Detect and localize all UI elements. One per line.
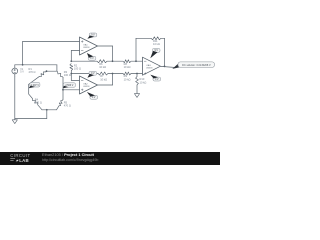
node bridge bottom	[46, 109, 48, 111]
svg-text:100 Ω: 100 Ω	[74, 67, 81, 71]
svg-text:LM358: LM358	[83, 47, 90, 49]
label OA1 LM358	[83, 44, 90, 50]
svg-text:470 Ω: 470 Ω	[29, 70, 36, 74]
resistor R10	[136, 77, 139, 86]
wire bridge right vertical	[62, 77, 64, 99]
node rail2 OA2 output junction	[112, 73, 114, 75]
wire OA2 non-inverting input from bridge	[63, 89, 80, 91]
resistor R6	[97, 60, 107, 63]
resistor R3 (bridge top-right diagonal)	[57, 71, 63, 77]
node junction at excitation tap	[22, 64, 24, 66]
label V1 5V	[20, 68, 24, 74]
svg-text:Ethan2105 / Project 1 Circuit: Ethan2105 / Project 1 Circuit	[42, 152, 95, 157]
node output feedback junction	[164, 66, 166, 68]
resistor R8	[123, 60, 131, 63]
svg-text:9 V: 9 V	[91, 73, 95, 75]
supply flag VEE at OA1	[87, 53, 96, 60]
wire OA1 output down to rail1	[112, 46, 114, 61]
wire feedback down to output	[164, 38, 166, 66]
supply flag VEE at OA3	[150, 75, 160, 81]
wire rail1 R6 to R8	[107, 60, 123, 62]
OA3 minus input mark	[144, 60, 146, 62]
label R6 10k	[99, 62, 106, 69]
wire rail2 node B to R7	[71, 73, 98, 75]
label R9 10k	[124, 74, 131, 81]
svg-text:2.503 V: 2.503 V	[65, 85, 73, 87]
node rail2 R10 junction	[136, 73, 138, 75]
svg-text:0 V: 0 V	[155, 79, 159, 81]
svg-text:LAB: LAB	[19, 158, 29, 163]
label R11 10k	[153, 39, 160, 46]
label R2 100 ohm	[74, 63, 81, 70]
resistor R9	[123, 72, 131, 75]
label R10 10k	[140, 77, 147, 84]
supply flag VCC at OA1	[87, 33, 96, 39]
svg-text:OA3: OA3	[146, 64, 151, 67]
wire feedback up from rail1	[135, 38, 137, 61]
svg-text:10 kΩ: 10 kΩ	[124, 77, 131, 81]
svg-text:9 V: 9 V	[91, 35, 95, 37]
svg-text:http://circuitlab.com/c/9nxvgd: http://circuitlab.com/c/9nxvgdqg49b	[42, 158, 98, 162]
resistor R4 (bridge bottom-left diagonal)	[29, 94, 42, 110]
label R7 10k	[100, 74, 107, 81]
svg-text:0 V: 0 V	[90, 58, 94, 60]
wire bottom rail to bridge bottom	[15, 118, 47, 120]
footer bar	[0, 152, 220, 165]
svg-text:OA1: OA1	[83, 44, 88, 47]
svg-text:10 kΩ: 10 kΩ	[100, 77, 107, 81]
wire node A vertical	[70, 51, 72, 62]
svg-text:LM358: LM358	[83, 86, 90, 88]
svg-text:10 kΩ: 10 kΩ	[153, 42, 160, 46]
resistor R5 (bridge bottom-right diagonal)	[57, 99, 64, 109]
voltage annotation flag at output VOUT	[172, 62, 214, 69]
resistor R1 (bridge top-left diagonal)	[29, 71, 47, 84]
svg-text:DC solution: 0.0130208 V: DC solution: 0.0130208 V	[182, 64, 211, 67]
svg-text:OA2: OA2	[83, 83, 88, 86]
svg-text:0 V: 0 V	[92, 97, 96, 99]
op-amp OA1	[80, 37, 98, 55]
wire bridge bottom segment	[42, 109, 57, 111]
ground GND1	[12, 119, 17, 124]
wire source minus down left rail	[14, 77, 16, 119]
wire feedback top right segment	[161, 37, 165, 39]
wire to OA2 inverting input	[71, 79, 79, 81]
wire rail2 down to R10	[136, 74, 138, 77]
wire from source V1 plus terminal to bridge top (horizontal)	[15, 64, 57, 66]
label R5 470 ohm	[64, 100, 71, 107]
OA1 plus input mark	[81, 41, 83, 43]
svg-text:10 kΩ: 10 kΩ	[99, 65, 106, 69]
wire node B vertical	[70, 71, 72, 81]
wire OA3 output	[161, 66, 175, 67]
wire rail1 R8 to OA3 inverting input	[131, 60, 143, 62]
wire OA1 output	[98, 45, 113, 47]
wire to OA1 non-inverting input (horizontal)	[23, 41, 80, 43]
wire bridge left vertical	[28, 84, 30, 94]
supply flag VEE at OA2	[87, 92, 98, 99]
wire R10 to ground	[136, 85, 138, 94]
wire OA2 output	[98, 84, 113, 86]
svg-text:9 V: 9 V	[154, 50, 158, 52]
op-amp OA2	[80, 76, 98, 94]
node bridge top	[46, 70, 48, 72]
CircuitLab logo	[10, 153, 30, 163]
svg-text:10 kΩ: 10 kΩ	[140, 80, 147, 84]
OA2 minus input mark	[81, 79, 83, 81]
wire bridge bottom to ground rail	[46, 110, 48, 119]
OA3 plus input mark	[144, 73, 146, 75]
label R4 470 ohm	[35, 97, 42, 104]
footer title text	[42, 152, 98, 162]
supply flag VCC at OA2	[87, 71, 96, 78]
ground GND2	[134, 94, 139, 98]
label R8 10k	[124, 62, 131, 69]
wire bridge top segment	[47, 70, 57, 72]
resistor R7	[98, 72, 108, 75]
wire OA1 inverting input stub	[71, 50, 79, 52]
node rail1 OA1 output junction	[112, 60, 114, 62]
label R1 470 ohm	[29, 67, 36, 74]
label OA3 LM358	[146, 64, 153, 70]
voltage source V1	[12, 65, 18, 77]
svg-text:470 Ω: 470 Ω	[64, 104, 71, 108]
voltage annotation flag at bridge right node	[63, 83, 75, 89]
wire OA2 output up to rail2	[112, 74, 114, 86]
OA1 minus input mark	[81, 50, 83, 52]
op-amp OA3	[143, 57, 161, 75]
svg-text:10 kΩ: 10 kΩ	[124, 65, 131, 69]
label R3 100 ohm	[64, 70, 71, 77]
wire rail1 node A to R6	[71, 60, 97, 62]
wire from bridge excitation node up-left to OA1 non-inverting input (vertical)	[22, 42, 24, 65]
svg-text:LM358: LM358	[146, 68, 153, 70]
resistor R2 (gain)	[70, 64, 73, 71]
node bridge right	[62, 89, 64, 91]
wire feedback top left segment	[136, 37, 151, 39]
supply flag VCC at OA3	[150, 48, 160, 58]
svg-text:470 Ω: 470 Ω	[35, 100, 42, 104]
voltage annotation flag at bridge left node	[29, 83, 40, 89]
wire rail2 R7 to R9	[108, 73, 123, 75]
node rail1 feedback junction	[135, 60, 137, 62]
node A junction	[70, 60, 72, 62]
resistor R11	[151, 37, 161, 40]
wire bridge feed (vertical drop)	[56, 65, 58, 71]
svg-text:2.497 V: 2.497 V	[31, 85, 39, 87]
wire rail2 R9 to OA3 non-inverting input	[131, 73, 143, 75]
svg-text:100 Ω: 100 Ω	[64, 73, 71, 77]
OA2 plus input mark	[81, 89, 83, 91]
label OA2 LM358	[83, 83, 90, 89]
svg-text:5 V: 5 V	[20, 71, 24, 74]
node B junction on rail2	[70, 73, 72, 75]
